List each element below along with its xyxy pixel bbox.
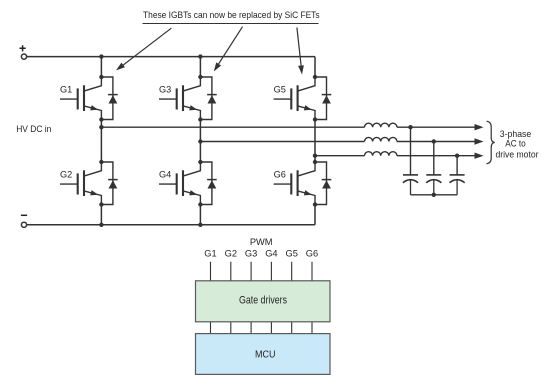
svg-text:G4: G4: [159, 170, 171, 180]
svg-text:G1: G1: [60, 85, 72, 95]
svg-text:AC to: AC to: [505, 138, 526, 148]
svg-text:G2: G2: [60, 170, 72, 180]
svg-text:PWM: PWM: [250, 237, 273, 247]
svg-text:G5: G5: [285, 248, 297, 258]
svg-text:These IGBTs can now be replace: These IGBTs can now be replaced by SiC F…: [143, 10, 320, 20]
svg-text:Gate drivers: Gate drivers: [239, 294, 287, 306]
svg-text:G4: G4: [265, 248, 277, 258]
svg-text:drive motor: drive motor: [496, 150, 539, 160]
svg-text:G6: G6: [274, 170, 286, 180]
svg-text:G6: G6: [306, 248, 318, 258]
svg-text:HV DC in: HV DC in: [16, 124, 51, 134]
svg-text:G2: G2: [225, 248, 237, 258]
svg-text:3-phase: 3-phase: [500, 129, 532, 139]
svg-text:G3: G3: [159, 85, 171, 95]
svg-text:G5: G5: [274, 85, 286, 95]
svg-text:G1: G1: [204, 248, 216, 258]
svg-text:MCU: MCU: [255, 349, 276, 360]
svg-text:G3: G3: [245, 248, 257, 258]
